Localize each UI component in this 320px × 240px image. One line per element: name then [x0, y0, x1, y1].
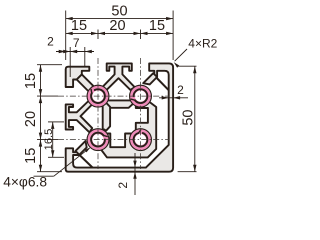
- top center T-post between top slots: [102, 63, 134, 90]
- svg-text:15: 15: [23, 148, 39, 164]
- tap hole 2 (phi 6.8) pink highlight: [130, 86, 151, 107]
- svg-text:7: 7: [73, 36, 80, 50]
- screw boss 1: [87, 86, 108, 107]
- svg-text:15: 15: [71, 18, 87, 34]
- extension lines for right 50: [178, 65, 197, 67]
- svg-text:4×R2: 4×R2: [188, 37, 217, 51]
- screw boss 4: [130, 129, 151, 150]
- svg-text:20: 20: [109, 18, 125, 34]
- dimension 2 (bottom wall thickness) line and arrows: [134, 153, 136, 195]
- svg-text:2: 2: [177, 83, 184, 97]
- svg-text:50: 50: [180, 110, 196, 126]
- horizontal centerline through top hole row: [58, 95, 169, 97]
- svg-text:15: 15: [149, 18, 165, 34]
- svg-text:20: 20: [23, 111, 39, 127]
- svg-text:16.5: 16.5: [43, 129, 55, 151]
- tap hole 3 drill circle: [91, 133, 105, 147]
- left center T-post between left slots: [66, 100, 93, 132]
- vertical centerline through left hole column: [97, 58, 99, 169]
- left web between boss 1 and boss 3: [103, 103, 110, 131]
- left dimension column 15/20/15 line and arrows: [40, 65, 42, 172]
- dimension 50 (right overall height) line and arrows: [194, 66, 196, 172]
- profile plate: top-right corner block, right wall, bottom-right gusset, bottom wall, bottom-left corner block: [66, 63, 173, 171]
- tap hole 1 (phi 6.8) pink highlight: [88, 86, 109, 107]
- extension lines for top 50: [65, 11, 67, 61]
- top web between boss 1 and boss 2: [105, 100, 133, 107]
- extension lines for left dimensions: [37, 64, 62, 66]
- screw boss 3: [87, 129, 108, 150]
- top-right strut from block tooth to boss 2: [143, 73, 157, 84]
- tap hole 4 drill circle: [134, 133, 148, 147]
- extension lines for 16.5: [48, 121, 64, 123]
- extension lines for 2 and 7: [69, 47, 71, 77]
- bottom and right webs with center grooves and 45-deg corner chamfer: [101, 100, 156, 157]
- tap hole 1 drill circle: [91, 89, 105, 103]
- dimension row 15/20/15 (top) line and arrows: [66, 32, 173, 34]
- top-left corner tab: [66, 67, 90, 87]
- screw boss 2: [130, 86, 151, 107]
- tap hole 2 drill circle: [134, 89, 148, 103]
- tap hole 3 (phi 6.8) pink highlight: [88, 129, 109, 150]
- svg-text:2: 2: [116, 182, 130, 189]
- top-right corner rib: [156, 77, 169, 90]
- bottom-left corner rib: [79, 155, 92, 168]
- dimension 16.5 (slot cavity width) line and arrows: [52, 122, 54, 157]
- tap hole 4 (phi 6.8) pink highlight: [130, 129, 151, 150]
- dimension 50 (top overall width) line and arrows: [66, 18, 173, 20]
- dimension line for 2 and 7 (top-left): [56, 51, 94, 53]
- dimension 2 (right wall thickness) line and arrows: [159, 97, 188, 99]
- top-left diagonal strut to boss 1: [77, 74, 94, 92]
- vertical centerline through right hole column: [140, 58, 142, 169]
- svg-text:15: 15: [23, 73, 39, 89]
- bottom-left strut from block tooth to boss 3: [76, 141, 87, 155]
- svg-text:4×φ6.8: 4×φ6.8: [3, 175, 47, 190]
- extension ticks at slot centers: [97, 30, 99, 40]
- svg-text:2: 2: [47, 35, 54, 49]
- horizontal centerline through bottom hole row: [58, 139, 169, 141]
